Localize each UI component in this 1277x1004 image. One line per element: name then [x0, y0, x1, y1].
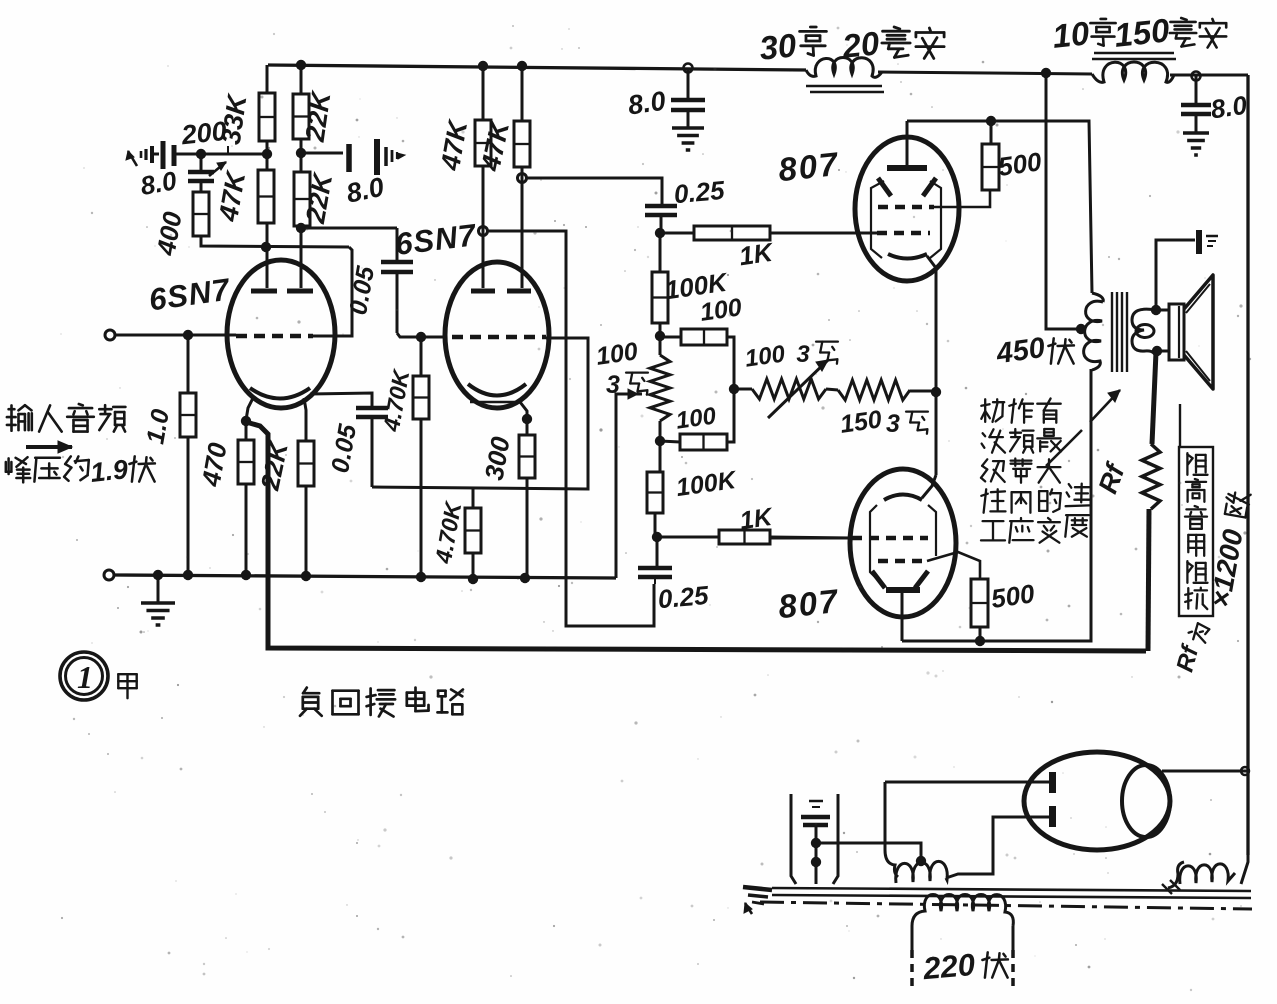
V3 beam frame [871, 181, 884, 258]
capacitor C6 0.05 [396, 228, 399, 261]
capacitor C4 8uF [1195, 76, 1198, 104]
wire R11 to bus [526, 478, 529, 578]
svg-text:100: 100 [594, 337, 639, 371]
V3 cathode lead [927, 256, 936, 290]
wire Rf to secondary [1152, 352, 1156, 444]
V1 cathode leads [246, 396, 254, 420]
wire V2 left grid [421, 336, 447, 339]
rheostat R17 100 3W [734, 388, 752, 391]
wire feedback bottom run [268, 645, 1146, 651]
note arrow to transformer [1046, 430, 1082, 466]
wire 22K column [300, 65, 303, 94]
V3 plate bar [887, 165, 927, 171]
svg-text:807: 807 [777, 145, 842, 188]
wire B+ to OPT center [1046, 73, 1080, 329]
wire V2 right plate to upper 807 [526, 178, 662, 205]
capacitor C1 8uF input supply [152, 153, 159, 156]
resistor R7 22K [298, 441, 314, 486]
T2 primary lead marks [910, 950, 914, 987]
resistor R13 4.7K [472, 487, 475, 508]
resistor R5 400 [200, 181, 203, 192]
speaker driver [1169, 304, 1184, 360]
VR1 wiper arrow [616, 393, 642, 396]
wire V3 plate bus [907, 121, 1092, 293]
V2 plate bars [471, 289, 495, 294]
tube V3 807 envelope [855, 137, 959, 281]
wire 807 cathode column [935, 269, 938, 475]
ground C1 arrow [150, 146, 154, 163]
V4 cathode [884, 495, 922, 501]
node bias bottom [655, 436, 665, 446]
wire R23 to plate wire [979, 627, 982, 641]
transformer T2 filament winding [1168, 862, 1184, 888]
node cathode bias join [931, 387, 941, 397]
resistor R15 100K [659, 233, 662, 272]
node HV center tap [916, 856, 926, 866]
svg-text:500: 500 [989, 578, 1037, 614]
wire R12 to bus [420, 419, 423, 577]
ground C3 [672, 126, 704, 130]
label figure number circled 1 [60, 652, 108, 700]
label input note [7, 405, 32, 431]
label transformer note col1 [981, 399, 1004, 422]
svg-text:100: 100 [743, 340, 787, 372]
capacitor C7 0.05 [356, 406, 388, 411]
node T1 secondary bottom [1152, 346, 1162, 356]
V5 plate bar 2 [1049, 806, 1056, 827]
capacitor C9 0.25 [656, 537, 659, 567]
resistor R23 500 [971, 579, 988, 627]
node C8 junction [655, 228, 665, 238]
speaker cone [1184, 275, 1213, 389]
V1 plate bars [251, 289, 277, 294]
svg-text:220: 220 [921, 947, 977, 986]
resistor Rf feedback [1142, 444, 1160, 509]
node V2 left grid [416, 332, 426, 342]
resistor R1 33K [259, 93, 275, 141]
wire R7 to bus [305, 486, 308, 576]
potentiometer VR1 100 3W [659, 336, 662, 355]
node V2 left plate tap [479, 227, 488, 236]
wire R3 to plate [266, 223, 269, 288]
wire 33K column [266, 65, 269, 93]
node T1 secondary top [1151, 305, 1161, 315]
wire choke1 to node [878, 72, 1092, 74]
V3 control grid dashes [877, 231, 930, 236]
ground chassis left [743, 887, 772, 890]
V4 control grid dashes [852, 536, 928, 541]
wire V1 right plate to coupling cap [301, 227, 397, 230]
node OPT center tap [1076, 324, 1086, 334]
resistor R10 47K [521, 66, 524, 121]
svg-text:500: 500 [996, 146, 1044, 182]
wire V4 grid [770, 537, 852, 540]
ground C4 [1183, 131, 1209, 135]
wire V1 grid input [115, 334, 236, 337]
label transformer note col3 [1037, 399, 1060, 423]
svg-text:450: 450 [994, 332, 1047, 371]
wire R5 to grid feed [201, 236, 349, 247]
resistor R21 1K [657, 536, 719, 539]
resistor R20 100K [659, 441, 662, 472]
V4 screen lead [927, 552, 980, 579]
wire right edge B+ riser [1246, 75, 1249, 855]
wire HV riser [884, 782, 887, 850]
wire top supply bus [268, 65, 806, 70]
wire R10 to plate [521, 167, 524, 288]
inductor L1 30H choke [806, 58, 882, 78]
node V2 right plate tap [518, 174, 527, 183]
svg-text:1K: 1K [737, 237, 776, 272]
ground C5 [384, 147, 388, 166]
svg-text:100: 100 [698, 293, 743, 327]
V4 plate lead [901, 590, 904, 641]
label jia [118, 674, 136, 698]
V1 grid dashes [236, 334, 313, 339]
svg-text:1K: 1K [738, 503, 775, 535]
T2 hatch marks [1162, 884, 1172, 894]
terminal input bottom [104, 570, 114, 580]
transformer T2 HV winding [885, 850, 898, 877]
baseline chassis 2 [772, 895, 1251, 898]
transformer T1 core [1111, 292, 1113, 372]
wire R4 to plate [300, 226, 303, 288]
V4 cathode lead [922, 475, 936, 498]
label transformer note col4 [1066, 484, 1090, 507]
capacitor C5 8uF [301, 152, 343, 155]
wire R9 to plate [482, 166, 485, 288]
V5 plate bar 1 [1049, 772, 1056, 793]
svg-text:807: 807 [777, 582, 842, 625]
wire secondary to speaker [1156, 309, 1170, 312]
label input level note [6, 457, 30, 482]
label feedback circuit name [300, 688, 322, 716]
node top bus junctions [296, 60, 306, 70]
svg-text:8.0: 8.0 [138, 165, 179, 201]
wire R6 to bus [245, 484, 248, 576]
svg-text:8.0: 8.0 [626, 86, 667, 121]
svg-text:1.0: 1.0 [141, 407, 175, 446]
wire bottom bus [114, 575, 616, 578]
wire feedback cathode branch [246, 422, 268, 645]
V3 screen grid dashes [878, 205, 934, 210]
svg-text:150: 150 [1112, 11, 1171, 54]
capacitor C8 0.25 [645, 204, 677, 209]
V2 cathode lead [520, 402, 527, 419]
tube V5 rectifier envelope [1024, 752, 1170, 850]
baseline chassis 1 [772, 888, 1251, 891]
wire HV bottom to V5 plate2 [946, 817, 1049, 878]
node input grid [183, 330, 193, 340]
terminal input top [105, 330, 115, 340]
wire R8 to bus [187, 437, 190, 575]
resistor R14 1K [660, 232, 694, 235]
wire center tap to cap [816, 843, 921, 861]
resistor R12 4.7K [420, 337, 423, 376]
transformer T1 primary [1092, 293, 1103, 302]
resistor R16 100 [660, 336, 681, 339]
inductor L2 10H choke [1094, 52, 1174, 55]
V3 beam plates [878, 178, 891, 196]
wire bus corner up to wiper [616, 394, 638, 578]
wire grid bias row [372, 338, 588, 489]
resistor R11 300 [526, 419, 529, 435]
node cap join [811, 838, 821, 848]
transformer T2 primary [911, 926, 914, 950]
svg-text:8.0: 8.0 [1209, 90, 1250, 125]
node after choke2 [1192, 72, 1201, 81]
resistor R8 1.0 [187, 335, 190, 393]
input note arrow [26, 445, 72, 449]
baseline chassis dashdot [760, 902, 1252, 909]
resistor R2 22K [293, 94, 309, 139]
wire choke2 to right corner [1170, 74, 1248, 77]
V4 beam frame [870, 505, 878, 580]
wire R22 to plate bus [990, 121, 993, 144]
transformer T1 secondary [1132, 309, 1156, 361]
svg-text:10: 10 [1051, 14, 1092, 55]
V4 screen grid dashes [878, 559, 927, 564]
node R23 junction [975, 636, 985, 646]
resistor R19 100 [660, 441, 680, 442]
capacitor C11 first filter [791, 794, 796, 884]
V4 plate bar [886, 587, 920, 593]
ground input bus [157, 575, 160, 603]
label Rf note line [1179, 404, 1181, 448]
svg-text:30: 30 [758, 26, 799, 67]
svg-text:100: 100 [674, 402, 718, 434]
svg-text:1: 1 [77, 659, 93, 695]
label transformer note col2 [1009, 399, 1033, 422]
node bias top [655, 331, 665, 341]
node wiper join [729, 384, 739, 394]
wire R2 to R4 [300, 139, 303, 172]
wire secondary top to cap [1156, 240, 1195, 310]
wire down to V1 grid right [313, 247, 352, 336]
resistor R22 500 [982, 144, 999, 190]
V5 inner anode ellipse [1122, 765, 1170, 837]
svg-text:150: 150 [838, 405, 883, 439]
tube V1 6SN7 envelope [227, 260, 335, 408]
node 200 junction [196, 149, 206, 159]
wire V4 plate to OPT [902, 369, 1091, 641]
svg-text:3: 3 [886, 410, 900, 438]
svg-text:20: 20 [840, 24, 882, 65]
svg-text:0.25: 0.25 [657, 580, 711, 614]
V2 cathode [468, 384, 526, 396]
node filter cap node [684, 64, 693, 73]
V4 beam plates [872, 571, 885, 588]
resistor R9 47K [482, 66, 485, 120]
wire filament to V5 [1241, 855, 1248, 884]
svg-text:3: 3 [796, 341, 810, 368]
V1 cathode [250, 388, 310, 399]
wire HV top to V5 plate1 [885, 781, 1049, 784]
node plate bus tap [986, 116, 996, 126]
svg-text:1.9: 1.9 [89, 454, 129, 488]
node V1 cathode [241, 416, 251, 426]
wire V1 cathode to C7 [310, 393, 372, 407]
V3 screen lead [934, 190, 990, 207]
V3 cathode [888, 254, 927, 259]
node lower grid junction [652, 532, 662, 542]
svg-text:3: 3 [606, 371, 620, 399]
resistor R6 470 [245, 421, 248, 440]
V2 grid dashes [452, 335, 546, 340]
wire feedback riser [1148, 509, 1149, 651]
capacitor C3 8uF [687, 68, 690, 99]
capacitor C10 speaker [1196, 230, 1202, 254]
node bus junctions [153, 570, 163, 580]
V3 plate lead [906, 121, 909, 166]
wire V2 left plate to lower 807 [487, 231, 654, 626]
node plate-grid tie [261, 242, 271, 252]
svg-text:200: 200 [179, 116, 228, 151]
wire R1 to R3 [266, 141, 269, 170]
tube V4 807 envelope [850, 469, 956, 617]
node V2 cathode [522, 414, 532, 424]
capacitor C2 [200, 154, 203, 171]
svg-text:0.25: 0.25 [673, 175, 727, 209]
paper speckle [820, 43, 822, 45]
resistor R18 150 3W [838, 380, 910, 400]
resistor R4 22K [294, 172, 310, 226]
resistor R3 47K [258, 170, 274, 223]
tube V2 6SN7 envelope [445, 262, 549, 408]
node filament circle [1241, 767, 1249, 775]
